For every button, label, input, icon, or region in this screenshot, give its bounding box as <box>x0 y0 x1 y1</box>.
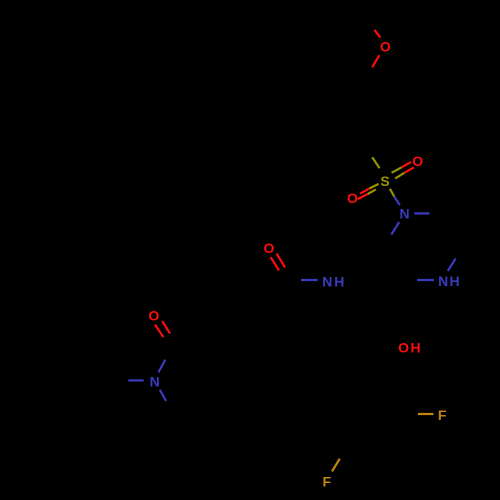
amide 2 N to left CH2, N half <box>128 379 143 381</box>
amide 2 N to lower-right CH3, N half <box>160 390 166 401</box>
sulfonyl S=O left, line B (O half red) <box>358 194 368 199</box>
svg-text:H: H <box>334 274 344 290</box>
sulfonyl S=O right, line A (O half red) <box>402 162 411 167</box>
piperazine N to lower-left CH2, N half <box>391 222 399 235</box>
amide 1 C=O, line A (O half red) <box>271 257 279 270</box>
S-N bond, S half <box>390 189 394 197</box>
fluorine right bond, F half <box>418 413 434 415</box>
amide 1 C=O, line B (O half red) <box>277 254 285 268</box>
svg-text:O: O <box>264 240 275 256</box>
sulfonyl S=O right, line B (O half red) <box>404 167 414 173</box>
svg-text:O: O <box>412 153 423 169</box>
sulfonyl S=O right, line A (S half olive) <box>392 167 402 173</box>
svg-text:F: F <box>438 407 447 423</box>
svg-text:O: O <box>380 39 391 55</box>
amide 2 N to carbonyl C, N half <box>158 360 165 373</box>
svg-text:N: N <box>400 206 410 222</box>
svg-text:H: H <box>450 273 460 289</box>
svg-text:O: O <box>347 190 358 206</box>
sulfonyl S=O right, line B (S half olive) <box>395 173 404 179</box>
svg-text:N: N <box>322 274 332 290</box>
svg-text:H: H <box>411 340 421 356</box>
sulfonyl S=O left, line A (O half red) <box>360 189 369 194</box>
amide 1 C-NH bond, N half <box>301 279 318 281</box>
sulfonyl S=O left, line A (S half olive) <box>369 184 378 189</box>
amide 2 C=O, line B (O half red) <box>162 321 170 334</box>
methoxy CH3-O bond, O half <box>374 30 380 38</box>
S-N bond, N half <box>394 197 400 206</box>
piperazine NH to upper-right CH2, N half <box>448 258 456 271</box>
svg-text:O: O <box>148 307 159 323</box>
svg-text:N: N <box>150 374 160 390</box>
sulfonyl S=O left, line B (S half olive) <box>368 189 376 194</box>
svg-text:F: F <box>323 474 332 490</box>
amide 2 C=O, line A (O half red) <box>155 325 163 338</box>
svg-text:S: S <box>380 173 389 189</box>
svg-text:O: O <box>398 340 409 356</box>
piperazine NH to left CH2, N half <box>417 279 434 281</box>
S to ring carbon, S half <box>372 157 379 168</box>
piperazine N to right CH2, N half <box>414 212 429 214</box>
fluorine bottom bond, F half <box>332 459 340 472</box>
svg-text:N: N <box>438 273 448 289</box>
methoxy O-ring bond, O half <box>372 55 379 67</box>
